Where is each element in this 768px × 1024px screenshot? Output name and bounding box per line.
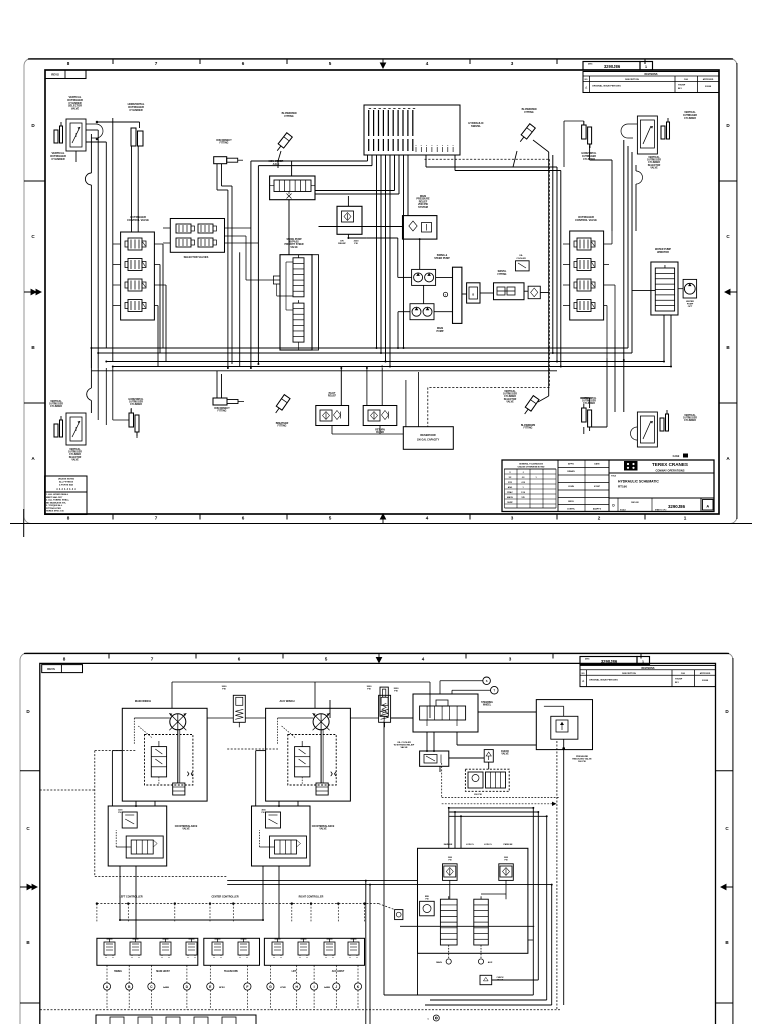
- svg-text:2: 2: [598, 516, 601, 521]
- svg-text:B: B: [128, 985, 131, 989]
- svg-text:SCALE: SCALE: [620, 509, 627, 512]
- svg-text:7: 7: [155, 516, 158, 521]
- svg-text:OPT: OPT: [688, 306, 693, 308]
- svg-text:TEREX CRANES: TEREX CRANES: [652, 462, 688, 467]
- left bus wires: [91, 118, 112, 368]
- svg-text:7: 7: [151, 657, 154, 662]
- svg-text:.010: .010: [521, 482, 526, 484]
- svg-text:A: A: [106, 985, 109, 989]
- main pressure relief valve: [403, 216, 437, 240]
- label top right selector: [647, 156, 661, 169]
- sheet 2 zone ticks right: [716, 771, 734, 1003]
- svg-text:CONTRL: CONTRL: [567, 509, 576, 511]
- brake small relief: [420, 896, 435, 916]
- top right selector valve: [637, 116, 657, 154]
- svg-text:D: D: [726, 123, 730, 128]
- svg-text:BE SEAMLESS STL: BE SEAMLESS STL: [46, 501, 67, 504]
- svg-text:W/MOTOR: W/MOTOR: [657, 251, 669, 254]
- svg-text:LPWD: LPWD: [280, 987, 286, 989]
- svg-text:ORIGINAL ISSUE PER DWG: ORIGINAL ISSUE PER DWG: [589, 679, 618, 682]
- label bottom right breather: [521, 425, 536, 430]
- wires winch supply verticals: [112, 751, 265, 806]
- svg-text:CONTROL VALVE: CONTROL VALVE: [127, 218, 149, 222]
- svg-text:SELECTOR VALVES: SELECTOR VALVES: [184, 255, 209, 259]
- svg-text:CONWAY OPERATIONS: CONWAY OPERATIONS: [655, 469, 684, 473]
- svg-text:▲▲▲▲▲▲▲▲: ▲▲▲▲▲▲▲▲: [56, 488, 77, 491]
- svg-text:CYLINDER: CYLINDER: [130, 404, 142, 406]
- label breather top center-left: [282, 112, 297, 118]
- hose loop top right: [621, 124, 637, 138]
- svg-text:.1: .1: [522, 472, 525, 474]
- svg-text:DRAWN: DRAWN: [567, 470, 575, 473]
- sheet 1 left edge arrow: [24, 289, 41, 294]
- wires swing drive: [664, 289, 683, 367]
- wire breather top center-left: [278, 151, 281, 168]
- svg-text:❯❮: ❯❮: [186, 771, 194, 777]
- brake left port box: [395, 910, 403, 920]
- sheet 1 right edge arrow: [725, 289, 737, 294]
- sheet 2 zone ticks left: [20, 771, 40, 1003]
- pump drive coupling rect: [453, 267, 462, 323]
- svg-text:WHEEL: WHEEL: [483, 705, 492, 707]
- svg-text:REVISIONS: REVISIONS: [641, 667, 654, 670]
- svg-text:VALVE: VALVE: [182, 828, 190, 831]
- steering orbital valve: [413, 694, 478, 732]
- svg-text:SWIVEL: SWIVEL: [471, 124, 481, 128]
- label dr relief: [338, 240, 359, 245]
- left vertical outrigger selector valve U1: [66, 119, 86, 151]
- pump interconnect wires: [319, 227, 467, 349]
- non-steer axle valve: [270, 176, 315, 200]
- bottom right horizontal cylinder: [582, 404, 592, 431]
- svg-text:3: 3: [511, 516, 514, 521]
- svg-text:ADAPT'D: ADAPT'D: [593, 508, 602, 511]
- svg-text:A: A: [706, 505, 709, 509]
- svg-text:A: A: [726, 456, 730, 461]
- swing steer priority valve: [273, 255, 318, 350]
- reservoir: [403, 427, 453, 450]
- sheet 2 inner frame: [40, 663, 716, 1024]
- svg-text:VALVE: VALVE: [501, 753, 509, 756]
- brake cross line: [400, 920, 534, 927]
- pilot dashed line from swivel: [425, 159, 550, 427]
- label hydraulic swivel: [468, 121, 483, 128]
- wires bottom right cluster: [538, 330, 624, 434]
- svg-text:PSI: PSI: [367, 688, 371, 690]
- svg-text:DR: DR: [340, 240, 344, 242]
- svg-text:JOHN: JOHN: [568, 486, 574, 488]
- svg-text:100 GAL CAPACITY: 100 GAL CAPACITY: [417, 439, 440, 442]
- wires steering cluster: [427, 706, 565, 772]
- svg-text:OUTRIGGER: OUTRIGGER: [683, 115, 697, 117]
- svg-text:2000: 2000: [354, 240, 360, 242]
- sheet 2 top center arrow: [376, 654, 381, 663]
- svg-text:STEER PUMP: STEER PUMP: [434, 257, 450, 260]
- svg-text:1/16: 1/16: [521, 492, 526, 494]
- label main winch: [135, 699, 151, 703]
- bottom-left selector valve: [66, 413, 86, 445]
- label check valve upper: [501, 751, 510, 756]
- bottom-left horizontal cylinder: [129, 409, 139, 436]
- label top right vertical cylinder: [683, 111, 697, 120]
- counterbalance valve right: [252, 806, 311, 866]
- label swing steer priority valve: [284, 239, 303, 249]
- svg-text:4: 4: [426, 61, 429, 66]
- svg-text:OIL: OIL: [519, 255, 523, 257]
- long wires counterbalance to right: [227, 881, 552, 1024]
- svg-text:APPROVED: APPROVED: [700, 672, 711, 675]
- svg-text:ORIGINAL ISSUE PER DWG: ORIGINAL ISSUE PER DWG: [592, 85, 621, 88]
- wires reservoir cluster: [332, 368, 419, 434]
- svg-text:FITTING: FITTING: [284, 115, 293, 118]
- svg-text:TELESCOPE: TELESCOPE: [224, 971, 238, 973]
- svg-text:CYLINDER: CYLINDER: [684, 118, 696, 120]
- brake spool 1: [440, 896, 457, 945]
- svg-text:F: F: [246, 985, 248, 989]
- horizontal bus wires: [91, 348, 671, 371]
- svg-text:NO: NO: [582, 673, 585, 675]
- svg-text:RELIEF: RELIEF: [328, 396, 337, 398]
- sheet 1 top center arrow: [380, 59, 385, 68]
- hydraulic swivel box: [364, 105, 460, 155]
- svg-text:CYLINDER: CYLINDER: [684, 420, 696, 422]
- svg-text:PSI: PSI: [354, 243, 358, 245]
- label non-steer axle: [269, 160, 284, 166]
- svg-text:CHG: CHG: [681, 673, 686, 675]
- svg-text:AUX WINCH: AUX WINCH: [280, 699, 295, 703]
- label return filter: [375, 430, 385, 435]
- label bottom right horizontal cylinder: [582, 397, 597, 405]
- wires lower right hooks: [418, 940, 552, 1005]
- swivel horizontal runs: [251, 161, 399, 368]
- wires top right cluster: [533, 121, 636, 367]
- controller dashed drops: [97, 904, 365, 922]
- svg-text:T: T: [494, 689, 496, 693]
- svg-text:S: S: [486, 679, 488, 683]
- svg-text:NO: NO: [585, 79, 588, 81]
- svg-text:UNLESS NOTED: UNLESS NOTED: [58, 479, 75, 481]
- svg-text:PSI: PSI: [118, 812, 122, 814]
- svg-text:B: B: [31, 345, 35, 350]
- sheet 1 notes box: [45, 476, 87, 515]
- label main pump: [437, 327, 444, 333]
- left return wire sheet2: [384, 721, 418, 995]
- left vertical outrigger cylinder: [54, 122, 63, 143]
- svg-text:H: H: [295, 985, 298, 989]
- svg-text:HYDRAULIC SCHEMATIC: HYDRAULIC SCHEMATIC: [618, 480, 659, 484]
- svg-text:COOLER: COOLER: [516, 258, 526, 260]
- hose loop top-left: [86, 124, 103, 138]
- label bottom center breather: [276, 422, 289, 428]
- svg-text:SYSTEM: SYSTEM: [418, 206, 428, 209]
- svg-text:2. ALL TUBING SHALL: 2. ALL TUBING SHALL: [46, 499, 70, 502]
- svg-text:4: 4: [426, 516, 429, 521]
- main aux ports: [436, 959, 493, 964]
- pilot dashed bus left: [40, 749, 278, 877]
- bottom right vertical cylinder: [660, 410, 669, 431]
- svg-text:VALVE: VALVE: [319, 828, 327, 831]
- wire swivel to right breather: [513, 151, 517, 167]
- svg-text:GENERAL TOLERANCES: GENERAL TOLERANCES: [519, 463, 544, 466]
- svg-text:6: 6: [238, 657, 241, 662]
- sheet 1 corner crosshair: [23, 509, 25, 537]
- sheet 2 revision table: [580, 665, 716, 686]
- wires pump to bpr chain: [480, 291, 655, 293]
- svg-text:VERTICAL: VERTICAL: [684, 111, 696, 114]
- svg-text:T: T: [427, 1019, 429, 1021]
- svg-text:CONTROL VALVE: CONTROL VALVE: [575, 218, 597, 222]
- winch relief valve 2: [379, 695, 391, 727]
- svg-text:XXX: XXX: [508, 482, 513, 484]
- svg-text:200 PSI: 200 PSI: [474, 794, 482, 796]
- svg-text:VERTICAL: VERTICAL: [648, 156, 660, 159]
- sheet 1 zone numbers bottom: [67, 516, 687, 521]
- hose loop bottom-left: [87, 388, 92, 401]
- svg-text:7: 7: [155, 61, 158, 66]
- svg-text:500 PSI: 500 PSI: [578, 761, 586, 763]
- svg-text:DWG: DWG: [585, 659, 590, 661]
- svg-text:1: 1: [684, 516, 687, 521]
- svg-text:VERTICAL: VERTICAL: [69, 448, 81, 451]
- gauge port circle: [443, 292, 447, 296]
- svg-text:PSI: PSI: [448, 860, 452, 862]
- brake relief 2: [499, 857, 514, 880]
- sheet 1 drawing number box top-right: [583, 62, 640, 71]
- svg-text:ALL FITTINGS: ALL FITTINGS: [59, 481, 74, 484]
- sheet 2 revs table top-left: [42, 665, 83, 673]
- svg-text:PSI: PSI: [394, 691, 398, 693]
- wires bottom-left cluster: [86, 367, 137, 439]
- svg-text:X: X: [509, 472, 511, 474]
- svg-text:BREATHER: BREATHER: [276, 422, 289, 425]
- svg-text:CYLINDER: CYLINDER: [51, 157, 64, 161]
- svg-text:CHG: CHG: [684, 79, 689, 81]
- pressure reducing valve: [536, 700, 592, 750]
- svg-text:3290J86: 3290J86: [601, 659, 618, 664]
- svg-text:VERTICAL: VERTICAL: [684, 414, 696, 417]
- svg-text:REVS: REVS: [51, 73, 59, 77]
- svg-text:BYPASS: BYPASS: [289, 241, 299, 244]
- label main pressure relief: [416, 195, 430, 209]
- svg-text:AUX: AUX: [488, 961, 493, 964]
- sheet 2 zone letters right: [725, 709, 729, 945]
- svg-text:SURF: SURF: [507, 502, 513, 504]
- svg-text:THOMP: THOMP: [675, 679, 683, 681]
- label counterbalance left: [175, 825, 198, 831]
- bottom partial valve bank: [96, 1015, 256, 1024]
- oil cooler: [420, 751, 449, 766]
- svg-text:PSI: PSI: [504, 860, 508, 862]
- svg-text:1: 1: [642, 660, 644, 664]
- svg-text:HORIZONTAL: HORIZONTAL: [129, 398, 144, 401]
- svg-text:o: o: [442, 145, 443, 147]
- solid runs to brake block: [449, 808, 547, 848]
- svg-text:PUMP: PUMP: [437, 330, 444, 333]
- svg-text:MAIN WINCH: MAIN WINCH: [135, 699, 151, 703]
- label swivel small: [498, 271, 507, 276]
- svg-text:FITTING: FITTING: [524, 111, 533, 114]
- svg-text:3290J86: 3290J86: [668, 504, 686, 509]
- label winch relief 2: [367, 686, 373, 690]
- svg-text:VALVE: VALVE: [650, 166, 658, 169]
- label top disconnect: [216, 140, 232, 145]
- svg-text:AUX HOIST: AUX HOIST: [332, 970, 345, 973]
- svg-text:LOW CL: LOW CL: [466, 844, 475, 846]
- label left outrigger control valve: [127, 215, 149, 222]
- svg-text:RIGHT CONTROLLER: RIGHT CONTROLLER: [299, 896, 324, 899]
- svg-text:❯❮: ❯❮: [330, 771, 338, 777]
- sheet 1 revs table top-left: [45, 70, 86, 79]
- svg-text:B: B: [26, 940, 30, 945]
- label top right horizontal cylinder: [582, 152, 597, 161]
- top right horizontal outrigger cylinder: [582, 121, 592, 148]
- wires disconnect fittings: [217, 164, 232, 398]
- sheet 1 zone ticks right: [719, 181, 737, 403]
- svg-text:RESERVOIR: RESERVOIR: [420, 433, 435, 437]
- wires bank left connections: [113, 244, 166, 367]
- svg-text:o: o: [453, 145, 454, 147]
- check valve lower: [480, 975, 504, 984]
- label bottom right vertical cylinder: [683, 414, 697, 422]
- sheet 1 bottom cut line: [10, 523, 752, 525]
- svg-text:RT190: RT190: [618, 485, 627, 489]
- svg-text:XX: XX: [509, 477, 512, 479]
- svg-text:FITTING: FITTING: [218, 411, 227, 413]
- bottom disconnect fitting: [213, 398, 244, 405]
- wires selector manifold: [163, 228, 280, 367]
- flow divider diamond box: [528, 286, 540, 299]
- svg-text:TEREX SPEC 100: TEREX SPEC 100: [46, 511, 65, 513]
- steering wheel circles: [483, 677, 498, 694]
- wires steering circles: [440, 681, 491, 694]
- svg-text:SHEET 1 OF 2: SHEET 1 OF 2: [655, 510, 666, 512]
- sheet 1 zone ticks bottom: [113, 514, 645, 520]
- label swing motor: [686, 300, 694, 308]
- svg-text:LOW CL: LOW CL: [484, 844, 493, 846]
- svg-text:B: B: [725, 940, 729, 945]
- svg-text:125: 125: [521, 497, 525, 499]
- right outrigger control valve bank: [570, 231, 604, 320]
- svg-text:THOMP: THOMP: [678, 85, 686, 87]
- svg-text:DESCRIPTION: DESCRIPTION: [625, 79, 639, 81]
- aux winch module: [266, 708, 351, 801]
- svg-text:SWIVEL: SWIVEL: [498, 271, 507, 273]
- svg-text:5: 5: [325, 657, 328, 662]
- svg-text:J: J: [335, 985, 337, 989]
- svg-text:LIFT: LIFT: [292, 971, 297, 973]
- main runs right of swivel: [455, 155, 561, 171]
- label pilot relief 1: [328, 393, 337, 398]
- svg-text:VALVE: VALVE: [71, 107, 80, 111]
- svg-text:8: 8: [63, 657, 66, 662]
- label right breather: [522, 108, 537, 114]
- sheet 2 outer border: [20, 653, 733, 1024]
- svg-text:MAIN BK: MAIN BK: [444, 843, 453, 846]
- svg-text:& PORTS SAE: & PORTS SAE: [59, 484, 74, 487]
- return filter 2: [363, 406, 397, 426]
- svg-text:o: o: [447, 145, 448, 147]
- sheet 2 left edge arrow: [20, 884, 37, 889]
- svg-text:VERTICAL: VERTICAL: [504, 390, 516, 393]
- main winch module: [122, 708, 207, 801]
- svg-text:3. TORQUE ALL: 3. TORQUE ALL: [46, 504, 63, 507]
- svg-text:C: C: [150, 985, 153, 989]
- svg-text:AABB: AABB: [324, 986, 330, 989]
- svg-text:CYLINDER: CYLINDER: [129, 108, 142, 112]
- svg-text:ANG: ANG: [508, 486, 513, 489]
- sheet 1 revision table: [583, 72, 719, 93]
- svg-text:PSI: PSI: [222, 688, 226, 690]
- main pump: [410, 304, 434, 320]
- dashed pilot steering: [442, 763, 560, 806]
- label bottom-left horizontal cylinder: [129, 398, 144, 406]
- controller pilot dashed bus: [96, 903, 395, 910]
- svg-text:C: C: [26, 826, 30, 831]
- svg-text:5: 5: [329, 61, 332, 66]
- top disconnect fitting: [214, 157, 243, 164]
- svg-text:APPROVED: APPROVED: [703, 78, 714, 81]
- label oil cooler: [394, 742, 415, 749]
- svg-text:2/2008: 2/2008: [702, 680, 709, 682]
- svg-text:D: D: [26, 709, 30, 714]
- bpr valve: [467, 283, 480, 303]
- label bottom disconnect: [214, 408, 230, 413]
- svg-text:1: 1: [535, 477, 537, 479]
- label aux winch: [280, 699, 295, 703]
- controller box 3: [264, 938, 364, 965]
- label sig coupling: [516, 255, 526, 260]
- label left vertical outrigger cylinder: [50, 151, 66, 161]
- label right outrigger control valve: [575, 215, 597, 222]
- swivel right stub wires: [426, 155, 557, 167]
- right vertical wire pairs: [533, 741, 563, 1010]
- svg-text:MAIN: MAIN: [436, 961, 442, 964]
- label winch relief 1: [222, 686, 228, 690]
- label vertical outrigger selector: [67, 95, 83, 111]
- svg-text:C: C: [726, 234, 730, 239]
- label steer pump: [434, 254, 450, 260]
- svg-text:AABB: AABB: [163, 986, 169, 989]
- label sheet2 left relief: [394, 688, 400, 693]
- svg-text:A: A: [31, 456, 35, 461]
- svg-text:DWG: DWG: [588, 64, 593, 66]
- svg-text:PARK BK: PARK BK: [504, 843, 514, 846]
- svg-text:o: o: [431, 145, 432, 147]
- steer pump: [412, 269, 436, 285]
- svg-text:o: o: [426, 145, 427, 147]
- sheet 1 zone numbers top: [67, 61, 514, 66]
- svg-text:DATE: DATE: [594, 463, 600, 466]
- sheet 1 inner frame: [45, 70, 719, 514]
- svg-text:RELIEF: RELIEF: [338, 243, 346, 245]
- svg-text:G: G: [269, 985, 272, 989]
- svg-text:3290J86: 3290J86: [604, 64, 621, 69]
- label left horizontal outrigger cylinder: [128, 102, 145, 112]
- svg-text:PSI: PSI: [425, 899, 429, 901]
- swivel drop wires: [368, 155, 409, 367]
- swing drive: [651, 262, 678, 315]
- svg-text:3: 3: [511, 61, 514, 66]
- controller box 1: [97, 938, 198, 965]
- svg-text:REVISIONS: REVISIONS: [644, 73, 657, 76]
- svg-text:D: D: [612, 504, 615, 508]
- right cluster breather: [517, 124, 535, 144]
- svg-text:6/1997: 6/1997: [594, 486, 601, 488]
- hose loop right mid: [636, 171, 643, 184]
- svg-text:VALVE: VALVE: [401, 746, 409, 749]
- bottom right selector valve: [637, 412, 657, 447]
- svg-text:VERTICAL: VERTICAL: [50, 400, 62, 403]
